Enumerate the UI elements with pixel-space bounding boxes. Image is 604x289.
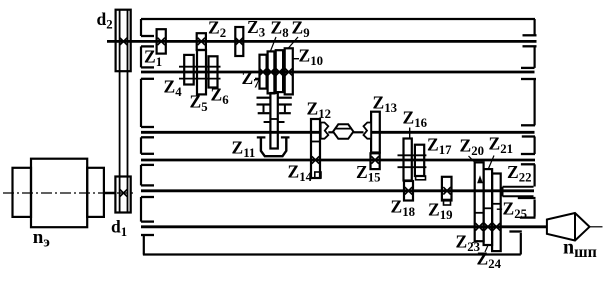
right wall segment 5 xyxy=(533,164,535,186)
pulley d2 xyxy=(116,10,131,71)
bearing support 1 under gear block xyxy=(257,97,271,99)
right wall segment 2 xyxy=(533,46,535,68)
x-mark Z25 fix xyxy=(493,223,500,230)
gear column Z21/Z24 xyxy=(484,169,493,245)
housing bottom wall xyxy=(143,253,521,255)
belt lines xyxy=(119,10,121,213)
sleeve quill below block xyxy=(270,93,277,149)
x-mark Z19 fix xyxy=(443,187,450,194)
x-mark Z1 fix xyxy=(158,38,165,45)
left bearing bar 1 xyxy=(141,35,154,37)
cup gear Z11 xyxy=(257,136,266,138)
left bearing bar 9 xyxy=(141,184,154,186)
gear column Z25 xyxy=(492,174,501,252)
electric motor body xyxy=(31,159,87,228)
x-mark Z18 fix xyxy=(405,187,412,194)
motor dash-dot centerline xyxy=(3,192,134,194)
gear Z1 xyxy=(157,29,166,53)
leader Z9 xyxy=(288,37,298,49)
hexagon coupling element xyxy=(333,124,353,139)
left wall segment 6 xyxy=(140,197,142,222)
gear Z8 (block) xyxy=(268,51,275,93)
left wall segment 4 xyxy=(140,137,142,154)
jaw clutch half on Z12 xyxy=(321,123,329,139)
x-mark Z23 fix xyxy=(475,223,482,230)
left bearing bar 7 xyxy=(141,153,154,155)
gear Z4 xyxy=(184,55,194,85)
right bearing bar 9 xyxy=(518,197,536,199)
x-mark pulley d2 fix xyxy=(120,38,127,45)
shaft III (segmented around clutch) xyxy=(141,131,321,134)
x-mark Z10 fix xyxy=(285,68,292,75)
left wall segment 7 xyxy=(143,235,145,255)
leader Z7 xyxy=(255,77,261,79)
spindle axis tail xyxy=(590,226,603,228)
left wall segment 1 xyxy=(140,19,142,36)
hub lines of gear cluster Z4-Z6 xyxy=(179,66,221,68)
x-mark Z2 fix xyxy=(198,38,205,45)
shaft II xyxy=(141,71,535,74)
hub lines of gear block Z16-Z17 xyxy=(398,154,427,156)
right bearing bar 1 xyxy=(523,34,537,36)
right bearing bar 2 xyxy=(523,45,537,47)
left bearing bar 2 xyxy=(141,45,154,47)
shaft VI spindle xyxy=(141,225,547,228)
left bearing bar 5 xyxy=(141,126,154,128)
leader Z10 xyxy=(293,58,299,60)
leader Z20 xyxy=(469,156,475,162)
right bearing bar 5 xyxy=(521,124,535,126)
leader Z21 xyxy=(489,156,495,169)
gear Z15 xyxy=(371,153,380,169)
right bearing bar 7 xyxy=(521,153,535,155)
right bearing bar 4 xyxy=(521,78,536,80)
gear Z16 xyxy=(404,139,412,181)
right bearing bar 11 xyxy=(509,230,521,232)
left bearing bar 6 xyxy=(141,136,154,138)
right wall segment 6 xyxy=(533,200,535,217)
jaw clutch half on Z13 xyxy=(364,123,372,139)
leader Z8 xyxy=(271,37,277,51)
x-mark Z3 fix xyxy=(236,38,243,45)
right wall segment 7 xyxy=(520,233,522,255)
hub tick under Z19 xyxy=(444,200,451,206)
gear Z3 xyxy=(235,27,243,56)
right bearing bar 10 xyxy=(520,216,536,218)
x-mark Z9 fix xyxy=(276,68,283,75)
right bearing bar 6 xyxy=(522,135,535,137)
left wall segment 3 xyxy=(140,79,142,127)
shaft IV xyxy=(141,159,535,162)
gear block Z12/Z14 xyxy=(311,119,320,178)
gear block Z13 xyxy=(371,112,380,153)
gear Z19 xyxy=(442,177,452,201)
right wall segment 1 xyxy=(533,19,535,35)
sleeve gear Z22 xyxy=(503,186,534,188)
gear Z17 xyxy=(415,145,424,176)
gear Z6 xyxy=(209,56,218,87)
spindle nose cone xyxy=(547,213,590,241)
leader Z23 xyxy=(472,241,478,244)
housing top cover xyxy=(141,18,535,20)
gear Z10 (block) xyxy=(285,48,293,94)
gear Z5 xyxy=(197,50,206,94)
x-mark Z8 fix xyxy=(267,68,274,75)
x-mark Z24 fix xyxy=(484,223,491,230)
left wall segment 5 xyxy=(140,165,142,186)
right wall segment 3 xyxy=(533,79,535,125)
hub tick under Z17 xyxy=(416,176,426,180)
left bearing bar 10 xyxy=(141,196,154,198)
leader Z24 xyxy=(485,245,488,252)
right bearing bar 8 xyxy=(521,163,535,165)
left bearing bar 12 xyxy=(141,234,154,236)
detent triangle on Z20 xyxy=(477,175,483,183)
shaft V xyxy=(141,189,534,192)
right bearing bar 3 xyxy=(521,67,535,69)
x-mark pulley d1 fix xyxy=(120,189,127,196)
x-mark Z14 fix xyxy=(312,156,319,163)
x-mark Z15 fix xyxy=(371,156,378,163)
gear column Z20/Z23 xyxy=(475,162,484,241)
left bearing bar 11 xyxy=(141,220,154,222)
left bearing bar 4 xyxy=(141,78,154,80)
gear Z7 (block) xyxy=(260,55,267,89)
right wall segment 4 xyxy=(533,137,535,155)
left bearing bar 3 xyxy=(141,66,154,68)
shaft I xyxy=(107,40,537,43)
left wall segment 2 xyxy=(140,46,142,67)
gear Z9 (block) xyxy=(276,50,283,92)
bearing support 2 under gear block xyxy=(278,97,292,99)
x-mark Z7 fix xyxy=(259,68,266,75)
gear Z18 xyxy=(404,181,413,201)
leader Z16 xyxy=(409,128,411,140)
leader Z25 xyxy=(497,208,502,210)
motor shaft stub xyxy=(104,192,116,195)
pulley d1 xyxy=(115,177,130,213)
left bearing bar 8 xyxy=(141,164,154,166)
gear Z2 xyxy=(197,33,206,50)
